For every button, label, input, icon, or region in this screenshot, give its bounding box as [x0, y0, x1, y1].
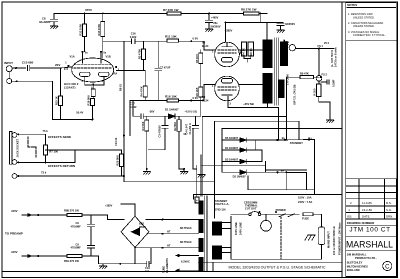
svg-text:47/16MF: 47/16MF	[71, 246, 82, 250]
svg-text:Fu: Fu	[286, 40, 290, 44]
svg-text:0.022: 0.022	[130, 105, 137, 109]
svg-text:MODEL 3203/4203 OUTPUT & P.S.U: MODEL 3203/4203 OUTPUT & P.S.U. STAGE SC…	[229, 266, 327, 270]
svg-text:MILTON KEYNES: MILTON KEYNES	[347, 264, 368, 268]
svg-text:240V : 7.5A: 240V : 7.5A	[298, 200, 312, 204]
svg-text:0.022: 0.022	[130, 35, 137, 39]
svg-text:C13 22: C13 22	[114, 137, 118, 146]
svg-text:R 100: R 100	[313, 88, 317, 95]
svg-text:C10 680: C10 680	[22, 61, 34, 65]
svg-text:32/350V: 32/350V	[285, 22, 295, 26]
svg-text:88.75VAC: 88.75VAC	[180, 226, 192, 230]
svg-text:11-6-86: 11-6-86	[362, 201, 372, 205]
svg-text:DRAWING NUMBER: DRAWING NUMBER	[347, 221, 375, 225]
svg-text:-36V: -36V	[149, 110, 155, 114]
svg-text:TO PREAMP: TO PREAMP	[5, 232, 23, 236]
svg-text:V3: V3	[202, 95, 206, 99]
svg-text:20V: 20V	[55, 63, 60, 67]
svg-text:+465V: +465V	[211, 17, 219, 20]
svg-text:1-8 OHM: 1-8 OHM	[286, 74, 290, 85]
svg-text:B+: B+	[282, 136, 286, 140]
svg-text:C7 47UF: C7 47UF	[160, 66, 171, 70]
svg-text:R16 5K6: R16 5K6	[87, 95, 91, 106]
svg-text:POWER: POWER	[276, 208, 286, 212]
svg-text:EL34: EL34	[202, 44, 209, 48]
svg-text:EFFECTS RETURN: EFFECTS RETURN	[48, 164, 75, 168]
svg-text:R7 100: R7 100	[49, 149, 58, 153]
svg-text:NOTES: NOTES	[347, 3, 357, 7]
svg-text:R8 27K 1W: R8 27K 1W	[241, 8, 257, 12]
svg-text:0.1MF: 0.1MF	[332, 79, 336, 87]
svg-text:50.4V: 50.4V	[76, 111, 83, 115]
svg-text:EL34: EL34	[202, 99, 209, 103]
svg-text:ISS.: ISS.	[347, 214, 353, 218]
svg-text:C8: C8	[42, 17, 46, 21]
svg-text:5 V: 5 V	[195, 199, 199, 203]
svg-text:R3 470K: R3 470K	[138, 49, 142, 59]
svg-text:240V LINE: 240V LINE	[239, 222, 243, 235]
svg-text:19-2-86: 19-2-86	[362, 208, 372, 212]
svg-text:+382V: +382V	[225, 29, 233, 33]
svg-text:1473 k or 8 ohm: 1473 k or 8 ohm	[334, 47, 338, 67]
svg-text:HT: HT	[167, 244, 171, 248]
svg-text:R16 10K: R16 10K	[165, 95, 178, 99]
svg-text:R9 47K: R9 47K	[300, 72, 309, 76]
svg-text:D2 1N4007: D2 1N4007	[233, 175, 247, 179]
svg-text:88.75VAC: 88.75VAC	[180, 240, 192, 244]
svg-text:R10 100K: R10 100K	[97, 24, 101, 36]
svg-text:VOLTS 1-A-: VOLTS 1-A-	[215, 202, 229, 206]
svg-text:R4 470K: R4 470K	[139, 86, 143, 96]
svg-text:D1 1N4007: D1 1N4007	[165, 108, 179, 112]
svg-text:POWER INPUT : 100 Watts: POWER INPUT : 100 Watts	[338, 222, 342, 255]
svg-text:2-2: 2-2	[145, 269, 149, 273]
svg-text:FS 1: FS 1	[318, 44, 324, 48]
svg-text:100 or 200/240 50/60 Hz: 100 or 200/240 50/60 Hz	[332, 225, 336, 255]
svg-text:W005: W005	[139, 225, 146, 229]
svg-text:ENGLAND: ENGLAND	[347, 268, 360, 272]
svg-text:R15 1K: R15 1K	[55, 96, 59, 105]
svg-text:UNLESS STATED.: UNLESS STATED.	[353, 15, 375, 19]
svg-text:R6 1K: R6 1K	[249, 48, 253, 55]
svg-text:R11 10K: R11 10K	[165, 35, 178, 39]
svg-text:C3 47/63V: C3 47/63V	[157, 125, 161, 138]
svg-text:R1 5K6: R1 5K6	[141, 121, 145, 130]
svg-text:415V: 415V	[11, 209, 18, 213]
svg-text:CONNECTION. X TYPICAL.: CONNECTION. X TYPICAL.	[353, 33, 386, 37]
svg-text:DATE: DATE	[362, 214, 370, 218]
svg-text:JACK SOCKET: JACK SOCKET	[16, 138, 20, 157]
svg-text:R2 5K6: R2 5K6	[173, 121, 177, 130]
svg-text:73 k: 73 k	[41, 170, 47, 174]
svg-text:BLETCHLEY: BLETCHLEY	[347, 261, 363, 265]
svg-text:R5 1K5: R5 1K5	[195, 54, 199, 63]
svg-text:V2: V2	[202, 41, 206, 45]
svg-text:DRN.: DRN.	[386, 214, 393, 218]
svg-text:V1A: V1A	[70, 55, 75, 59]
svg-text:50/350V: 50/350V	[211, 25, 221, 29]
svg-text:TUBE: TUBE	[162, 266, 166, 273]
svg-text:R88 270 1W: R88 270 1W	[64, 209, 79, 213]
svg-text:R12 100K: R12 100K	[79, 24, 83, 36]
svg-text:R9 51: R9 51	[119, 84, 123, 91]
svg-text:R7 22K 1W: R7 22K 1W	[163, 8, 179, 12]
svg-text:R6 1K5: R6 1K5	[195, 87, 199, 96]
svg-text:MARSHALL: MARSHALL	[346, 240, 394, 251]
svg-text:FUSE: FUSE	[302, 217, 309, 221]
svg-text:1763-116: 1763-116	[215, 208, 226, 212]
svg-text:O/P T.O. (742-29): O/P T.O. (742-29)	[293, 84, 297, 105]
svg-text:0 0V: 0 0V	[193, 37, 199, 41]
svg-text:E 6: E 6	[64, 67, 68, 71]
svg-text:EFFECTS SEND: EFFECTS SEND	[48, 135, 72, 139]
svg-text:100V : 10A: 100V : 10A	[298, 196, 312, 200]
svg-text:375V: 375V	[85, 8, 92, 12]
svg-text:75 k: 75 k	[43, 129, 49, 133]
svg-text:-4.5V (-10): -4.5V (-10)	[185, 110, 198, 114]
svg-text:+385V: +385V	[105, 205, 113, 208]
svg-text:HT: HT	[167, 230, 171, 234]
svg-text:FS 2: FS 2	[322, 73, 328, 77]
svg-text:47/16MF: 47/16MF	[71, 224, 82, 228]
svg-text:R81 270 1W: R81 270 1W	[64, 259, 79, 263]
svg-text:32+32MF: 32+32MF	[39, 20, 51, 24]
svg-text:C4 0.047: C4 0.047	[185, 123, 189, 134]
svg-text:C: C	[385, 264, 390, 270]
svg-text:MAINS INPUT: MAINS INPUT	[327, 231, 331, 248]
svg-text:(L. OUT 50V 8: (L. OUT 50V 8	[330, 50, 334, 67]
svg-text:FILAMENTS: FILAMENTS	[165, 258, 169, 273]
svg-text:B+: B+	[281, 168, 285, 172]
svg-text:D5 1N4007: D5 1N4007	[225, 136, 239, 140]
svg-text:PRODUCTS LTD.,: PRODUCTS LTD.,	[355, 256, 377, 260]
svg-text:UNLESS STATED.: UNLESS STATED.	[353, 24, 375, 28]
svg-text:D4 1N4007: D4 1N4007	[225, 146, 239, 150]
svg-text:R.S.: R.S.	[386, 201, 392, 205]
svg-text:R4 1K: R4 1K	[242, 48, 246, 55]
svg-text:+35V NB: +35V NB	[243, 102, 254, 106]
svg-text:B+: B+	[309, 136, 313, 140]
svg-text:R25 5K6: R25 5K6	[116, 155, 120, 166]
svg-text:100V LINE: 100V LINE	[234, 222, 238, 235]
svg-text:S.G.: S.G.	[386, 208, 392, 212]
svg-text:6.3VAC: 6.3VAC	[181, 260, 190, 264]
svg-text:INPUT: INPUT	[4, 61, 13, 65]
svg-text:V1B: V1B	[106, 55, 111, 59]
svg-text:V6x: V6x	[213, 21, 218, 25]
svg-text:415V: 415V	[11, 250, 18, 254]
svg-text:RA: RA	[114, 72, 118, 76]
svg-text:STANDBY: STANDBY	[290, 141, 303, 145]
svg-text:25:1: 25:1	[324, 41, 330, 45]
svg-text:CUT OUT: CUT OUT	[245, 207, 257, 211]
svg-text:JTM 100 CT: JTM 100 CT	[349, 226, 390, 233]
svg-text:(12AX7): (12AX7)	[64, 86, 75, 90]
svg-text:D3 1N4007: D3 1N4007	[225, 158, 239, 162]
svg-text:CLASS X: CLASS X	[188, 123, 192, 135]
